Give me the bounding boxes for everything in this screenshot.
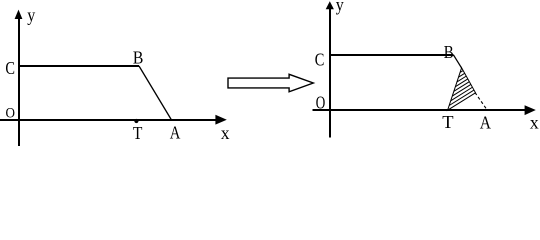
right side CB wire <box>329 54 454 56</box>
svg-text:T: T <box>133 123 143 143</box>
right y-axis <box>326 1 334 137</box>
svg-text:y: y <box>336 0 344 15</box>
right solid segment B to P1 wire <box>454 55 462 68</box>
svg-text:A: A <box>480 112 491 132</box>
svg-text:C: C <box>315 49 325 69</box>
svg-text:O: O <box>316 93 326 113</box>
svg-text:B: B <box>133 47 144 67</box>
big hollow arrow <box>228 74 313 92</box>
svg-text:x: x <box>221 123 230 143</box>
svg-text:C: C <box>5 58 15 78</box>
svg-text:O: O <box>6 105 16 121</box>
left side BA wire <box>139 66 172 120</box>
right x-axis <box>313 105 536 115</box>
svg-text:B: B <box>444 42 454 62</box>
svg-text:y: y <box>27 5 35 25</box>
svg-text:x: x <box>530 112 539 132</box>
left x-axis <box>0 115 227 125</box>
left point T dot <box>134 119 138 123</box>
right dashed segment to A wire <box>475 93 487 110</box>
hatched triangle P1 T P3 <box>448 68 476 110</box>
left side CB wire <box>18 65 139 67</box>
left y-axis <box>15 10 23 146</box>
svg-text:A: A <box>170 123 181 143</box>
svg-text:T: T <box>442 112 453 132</box>
